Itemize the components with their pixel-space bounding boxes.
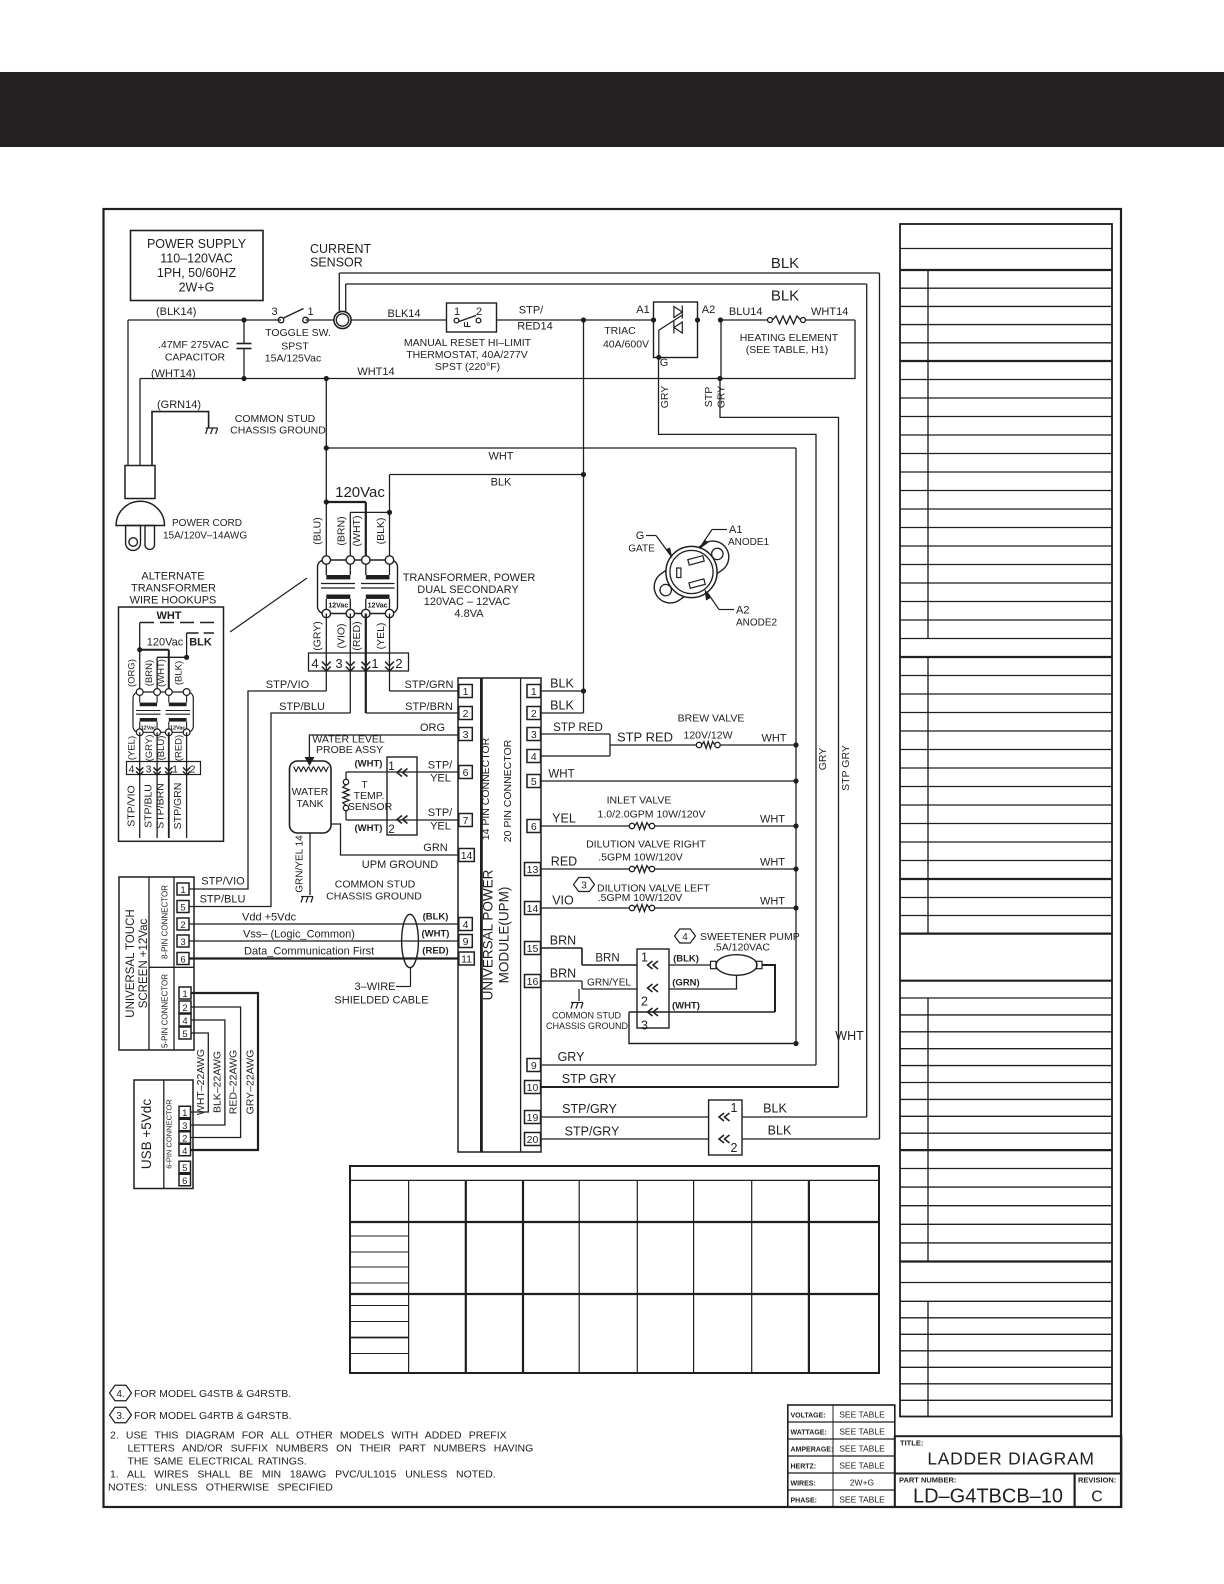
svg-text:CURRENT: CURRENT [310,242,371,256]
svg-text:STP/VIO: STP/VIO [266,679,310,691]
svg-text:2W+G: 2W+G [850,1478,874,1488]
svg-text:4: 4 [182,1016,187,1027]
svg-text:(SEE TABLE, H1): (SEE TABLE, H1) [746,344,828,356]
svg-text:(WHT): (WHT) [355,823,383,834]
svg-text:CHASSIS GROUND: CHASSIS GROUND [326,891,422,903]
svg-text:C: C [1091,1489,1103,1506]
svg-text:19: 19 [527,1112,539,1124]
triac Q1 [603,302,700,369]
wire pump BLK [669,954,711,966]
svg-text:TRANSFORMER: TRANSFORMER [131,583,216,595]
svg-text:2: 2 [531,708,537,720]
bottom data table [350,1166,879,1373]
svg-text:5: 5 [180,902,185,913]
svg-text:WHT: WHT [156,610,181,622]
note 2 [110,1430,533,1468]
wire STP/VIO [189,679,327,889]
svg-text:2: 2 [395,656,402,671]
wire toggle to current sensor [306,319,334,321]
universal touch screen block [119,877,194,1050]
wire GRY gate bus [659,357,817,1065]
svg-text:WHT: WHT [548,769,574,781]
svg-text:3: 3 [641,1019,648,1033]
20-pin connector pins [525,685,541,1146]
svg-text:GRY: GRY [558,1050,586,1064]
svg-text:4.8VA: 4.8VA [454,608,484,620]
3-wire shielded cable label [334,968,428,1007]
svg-text:PROBE ASSY: PROBE ASSY [316,744,383,756]
anode2 pointer [705,589,778,629]
svg-text:(WHT): (WHT) [672,1001,700,1012]
svg-text:FOR MODEL G4STB & G4RSTB.: FOR MODEL G4STB & G4RSTB. [134,1388,291,1400]
note 4 [110,1385,292,1401]
svg-text:WHT: WHT [760,814,785,826]
svg-text:BLK14: BLK14 [387,308,420,320]
svg-text:BLU14: BLU14 [729,306,763,318]
svg-text:4: 4 [182,1146,187,1157]
svg-text:STP RED: STP RED [617,730,673,745]
wire transformer BRN [350,510,392,560]
svg-text:1: 1 [182,1108,187,1119]
svg-text:WHT: WHT [488,451,513,463]
right reference table [900,224,1112,1417]
svg-text:TRIAC: TRIAC [604,325,636,337]
wire STP GRY pin10 [541,1072,839,1087]
wire BRN pin15 [541,934,638,966]
svg-text:STP/BRN: STP/BRN [405,701,453,713]
svg-text:110–120VAC: 110–120VAC [160,252,233,266]
capacitor C1 [158,317,252,378]
svg-text:15: 15 [527,943,539,955]
svg-text:1: 1 [307,306,313,318]
output connector J4 [709,1100,742,1155]
svg-text:1: 1 [172,764,178,776]
current sensor label [310,242,371,270]
wire BLK to bus (pin19) [742,1102,867,1118]
svg-text:WATER: WATER [292,786,329,798]
svg-text:COMMON STUD: COMMON STUD [335,879,416,891]
svg-text:STP/BRN: STP/BRN [155,783,167,829]
svg-text:STP RED: STP RED [553,722,603,734]
note 3 [110,1407,292,1423]
svg-text:POWER CORD: POWER CORD [172,518,242,529]
wire STP/GRY pin19 [541,1102,709,1117]
svg-text:(WHT): (WHT) [422,929,450,940]
wire GRY-22AWG [191,993,259,1150]
svg-text:A2: A2 [736,605,749,617]
svg-text:TITLE:: TITLE: [900,1439,923,1448]
wire BLK pin2 [541,699,584,714]
svg-text:ANODE1: ANODE1 [728,537,770,548]
sweetener pump label [675,929,800,954]
svg-text:.5GPM 10W/120V: .5GPM 10W/120V [598,852,683,864]
svg-text:BLK: BLK [771,288,799,305]
wire Vss logic common [189,929,459,942]
svg-text:14: 14 [527,903,539,915]
wire BLK pin1 [541,677,587,694]
title block [895,1436,1122,1473]
svg-text:STP GRY: STP GRY [840,745,852,791]
universal power module (UPM) body [458,678,541,1152]
svg-text:GATE: GATE [628,544,655,555]
wire BRN/GRN-YEL pin16 [541,967,638,990]
svg-text:4: 4 [531,751,537,763]
wire data communication [189,946,459,959]
svg-text:(BLK): (BLK) [673,954,699,965]
wire RED-22AWG [191,1007,241,1138]
svg-text:WHT: WHT [760,857,785,869]
svg-text:STP/BLU: STP/BLU [279,701,325,713]
transformer pin-number box [309,614,409,714]
svg-text:VIO: VIO [552,894,574,908]
svg-text:1.0/2.0GPM 10W/120V: 1.0/2.0GPM 10W/120V [598,809,706,821]
svg-text:STP/: STP/ [428,807,453,819]
svg-text:BLK: BLK [550,699,574,713]
notes header [108,1482,333,1494]
svg-text:POWER SUPPLY: POWER SUPPLY [147,237,247,251]
svg-text:1PH, 50/60HZ: 1PH, 50/60HZ [157,266,237,280]
svg-text:2: 2 [182,1003,187,1014]
wire STP RED pins3-4 [541,722,697,756]
wire WHT14 run [140,366,855,381]
wire STP/YEL pin6 [346,759,459,785]
sweetener pump M1 [711,955,763,976]
svg-text:1: 1 [463,686,469,698]
wire pump GRN [669,975,737,989]
svg-text:BRN: BRN [550,934,576,948]
temp sensor RT1 [343,772,393,820]
svg-text:DUAL SECONDARY: DUAL SECONDARY [417,584,519,596]
svg-text:1: 1 [454,306,460,318]
wire STP/BLU [189,701,351,907]
svg-text:1. ALL WIRES SHALL BE MIN: 1. ALL WIRES SHALL BE MIN 18AWG PVC/UL10… [110,1469,496,1481]
svg-text:2: 2 [731,1141,738,1155]
svg-text:3: 3 [271,306,277,318]
svg-text:120VAC – 12VAC: 120VAC – 12VAC [424,596,510,608]
svg-text:LETTERS AND/OR SUFFIX NUMBE: LETTERS AND/OR SUFFIX NUMBERS ON THEIR P… [128,1443,534,1455]
svg-text:3: 3 [146,764,152,776]
svg-text:5: 5 [182,1163,187,1174]
svg-text:SCREEN +12Vac: SCREEN +12Vac [138,918,150,1008]
svg-text:A2: A2 [702,304,715,316]
svg-text:A1: A1 [636,304,649,316]
svg-text:SEE TABLE: SEE TABLE [839,1495,885,1505]
svg-text:WIRES:: WIRES: [791,1480,816,1487]
svg-text:PART NUMBER:: PART NUMBER: [899,1476,956,1485]
svg-text:3: 3 [463,729,469,741]
svg-text:6: 6 [180,954,185,965]
svg-text:7: 7 [463,815,469,827]
svg-text:PHASE:: PHASE: [791,1497,817,1504]
wire STP/RED14 thermostat to triac A1 [497,305,654,333]
transformer secondary labels [312,621,388,651]
svg-text:2. USE THIS DIAGRAM FOR A: 2. USE THIS DIAGRAM FOR ALL OTHER MODELS… [110,1430,507,1442]
svg-text:13: 13 [527,864,539,876]
svg-text:(BLU): (BLU) [312,517,324,544]
svg-text:(WHT): (WHT) [156,659,167,687]
svg-text:(GRN14): (GRN14) [157,399,201,411]
svg-text:STP/: STP/ [428,760,453,772]
svg-text:RED: RED [551,855,577,869]
wire Vdd +5Vdc [189,912,459,925]
wire STP/BRN [366,701,459,713]
toggle switch SW1 [265,306,331,365]
svg-text:GRY: GRY [659,386,671,409]
svg-text:(RED): (RED) [174,735,185,761]
svg-text:3: 3 [531,729,537,741]
svg-text:3: 3 [182,1121,187,1132]
ratings table [788,1405,895,1507]
node A1 [636,304,649,316]
svg-text:120Vac: 120Vac [335,484,385,501]
svg-text:1: 1 [182,989,187,1000]
svg-text:WHT: WHT [760,896,785,908]
svg-text:2W+G: 2W+G [179,281,215,295]
svg-text:(BLK): (BLK) [174,661,185,685]
transformer T1 [318,556,398,618]
gate pointer [628,530,672,559]
svg-text:4: 4 [311,656,318,671]
svg-text:DILUTION VALVE RIGHT: DILUTION VALVE RIGHT [586,839,706,851]
svg-text:(BLK): (BLK) [423,912,449,923]
svg-text:15A/125Vac: 15A/125Vac [265,353,321,365]
svg-text:120Vac: 120Vac [147,637,184,649]
svg-text:HERTZ:: HERTZ: [791,1463,817,1470]
water level probe [305,734,385,767]
page header bar [0,72,1224,147]
wire WHT pin5 [541,769,799,784]
svg-text:12Vac: 12Vac [141,726,157,732]
power supply label box [131,231,264,301]
svg-text:USB +5Vdc: USB +5Vdc [139,1099,154,1169]
alternate transformer hookup box [119,607,224,841]
svg-text:SENSOR: SENSOR [348,801,393,813]
svg-text:4.: 4. [116,1389,124,1400]
svg-text:20: 20 [527,1134,539,1146]
wire GRN to pin14 [331,824,459,871]
svg-text:.47MF 275VAC: .47MF 275VAC [158,339,229,351]
svg-text:2: 2 [476,306,482,318]
svg-text:Vdd +5Vdc: Vdd +5Vdc [242,912,297,924]
chassis ground sweetener [546,989,629,1031]
svg-text:UNIVERSAL TOUCH: UNIVERSAL TOUCH [125,909,137,1017]
wire WHT-22AWG [191,1033,209,1115]
svg-text:.5A/120VAC: .5A/120VAC [713,942,770,954]
svg-text:TANK: TANK [296,798,323,810]
wire BLK-22AWG [191,1020,225,1125]
svg-text:(GRN): (GRN) [672,978,699,989]
node A2 [702,304,723,323]
svg-text:GRY–22AWG: GRY–22AWG [245,1050,257,1115]
wire transformer BLU [324,379,329,561]
wire pump WHT return [629,965,864,1046]
manual reset hi-limit thermostat TH1 [404,303,532,373]
sweetener connector J3 [637,949,669,1033]
svg-text:STP/GRN: STP/GRN [405,679,454,691]
svg-text:SEE TABLE: SEE TABLE [839,1461,885,1471]
temp sensor connector J2 [387,757,417,836]
wire STP GRY bus [703,376,839,1087]
shielded cable ellipse [402,912,450,968]
5-pin connector pins [179,987,191,1040]
6-pin connector pins [179,1106,191,1187]
svg-text:(YEL): (YEL) [375,623,387,650]
svg-text:MODULE(UPM): MODULE(UPM) [497,887,512,984]
svg-text:HEATING ELEMENT: HEATING ELEMENT [740,332,839,344]
wire bus A1/BLK vertical [583,320,585,713]
svg-text:THERMOSTAT, 40A/277V: THERMOSTAT, 40A/277V [406,349,528,361]
svg-text:6-PIN CONNECTOR: 6-PIN CONNECTOR [165,1099,174,1169]
svg-text:.5GPM 10W/120V: .5GPM 10W/120V [598,892,683,904]
svg-text:BLK: BLK [550,677,574,691]
svg-text:STP/: STP/ [519,305,544,317]
revision block [1075,1474,1122,1508]
svg-text:4: 4 [129,764,135,776]
svg-text:CAPACITOR: CAPACITOR [165,352,226,364]
svg-text:VOLTAGE:: VOLTAGE: [791,1412,826,1419]
svg-text:BREW VALVE: BREW VALVE [678,713,745,725]
svg-text:REVISION:: REVISION: [1078,1476,1116,1485]
wire GRY pin9 [541,1050,817,1065]
wire BLK14 from power cord [128,306,281,320]
svg-text:WHT–22AWG: WHT–22AWG [195,1049,207,1115]
wire STP/YEL pin7 [346,807,459,834]
svg-text:SPST (220°F): SPST (220°F) [435,361,500,373]
alternate hookup pointer line [230,578,307,632]
svg-text:1: 1 [371,656,378,671]
svg-text:SPST: SPST [281,341,309,353]
svg-text:6: 6 [182,1176,187,1187]
svg-text:ORG: ORG [420,722,445,734]
svg-text:9: 9 [463,936,469,948]
svg-text:(RED): (RED) [422,946,448,957]
svg-text:3: 3 [180,937,185,948]
svg-text:(YEL): (YEL) [127,736,138,760]
svg-text:INLET VALVE: INLET VALVE [607,795,672,807]
wire BLK feeder [390,472,587,489]
svg-text:STP/VIO: STP/VIO [126,785,138,826]
svg-text:1: 1 [731,1101,738,1115]
svg-text:16: 16 [527,976,539,988]
svg-text:12Vac: 12Vac [170,726,186,732]
svg-text:STP GRY: STP GRY [562,1072,617,1086]
bus labels GRY / STP GRY [817,745,852,791]
inlet valve [541,795,799,830]
svg-text:G: G [660,357,669,369]
USB block [134,1080,193,1189]
transformer primary labels [312,516,388,547]
svg-text:ANODE2: ANODE2 [736,618,778,629]
svg-text:SHIELDED CABLE: SHIELDED CABLE [334,995,428,1007]
svg-text:BLK: BLK [771,255,799,272]
svg-text:GRN/YEL: GRN/YEL [587,978,631,989]
svg-text:CHASSIS GROUND: CHASSIS GROUND [546,1021,629,1031]
14-pin connector pins [459,685,475,966]
anode1 pointer [699,524,770,550]
svg-text:WHT: WHT [761,733,786,745]
svg-text:SEE TABLE: SEE TABLE [839,1444,885,1454]
svg-text:2: 2 [182,1133,187,1144]
svg-text:2: 2 [641,995,648,1009]
svg-text:THE SAME ELECTRICAL RATINGS: THE SAME ELECTRICAL RATINGS. [128,1456,307,1468]
svg-text:(BRN): (BRN) [336,516,348,545]
svg-text:6: 6 [463,767,469,779]
alternate hookup title [130,571,217,607]
svg-text:BLK: BLK [768,1124,792,1138]
heating element H1 [721,306,855,379]
svg-text:UPM GROUND: UPM GROUND [362,859,438,871]
svg-text:5-PIN CONNECTOR: 5-PIN CONNECTOR [161,974,170,1048]
svg-text:GRY: GRY [716,386,728,409]
svg-text:WATTAGE:: WATTAGE: [791,1429,827,1436]
svg-text:COMMON STUD: COMMON STUD [552,1011,621,1021]
label 120Vac [335,484,385,501]
svg-text:NOTES: UNLESS OTHERWISE SPE: NOTES: UNLESS OTHERWISE SPECIFIED [108,1482,333,1494]
svg-text:RED14: RED14 [517,321,552,333]
svg-text:A1: A1 [729,524,742,536]
svg-text:9: 9 [531,1060,537,1072]
svg-text:12Vac: 12Vac [328,603,348,610]
svg-text:UNIVERSAL POWER: UNIVERSAL POWER [481,869,496,1000]
svg-text:10: 10 [527,1082,539,1094]
dilution valve right [541,839,799,873]
svg-text:BRN: BRN [595,953,619,965]
svg-text:YEL: YEL [430,821,451,833]
svg-text:TRANSFORMER, POWER: TRANSFORMER, POWER [403,572,536,584]
svg-text:TOGGLE SW.: TOGGLE SW. [265,327,331,339]
drawing border frame [104,209,1122,1507]
svg-text:1: 1 [180,885,185,896]
svg-text:6: 6 [531,821,537,833]
svg-text:8-PIN CONNECTOR: 8-PIN CONNECTOR [161,885,170,959]
dilution valve left [541,878,799,912]
svg-text:BLK: BLK [491,477,512,489]
svg-text:2: 2 [190,764,196,776]
svg-text:(RED): (RED) [351,621,363,650]
current sensor CT [334,311,351,328]
svg-text:AMPERAGE:: AMPERAGE: [791,1446,834,1453]
svg-text:SEE TABLE: SEE TABLE [839,1410,885,1420]
svg-text:40A/600V: 40A/600V [603,339,649,351]
svg-text:GRY: GRY [817,748,829,771]
brew valve [678,713,799,749]
wire BLK upper run [339,255,879,1139]
svg-text:15A/120V–14AWG: 15A/120V–14AWG [163,531,247,542]
svg-text:RED–22AWG: RED–22AWG [228,1050,240,1114]
note 1 [110,1469,496,1481]
svg-text:3: 3 [581,881,587,892]
wire GRN/YEL 14 to chassis ground [295,833,423,903]
svg-text:Vss– (Logic_Common): Vss– (Logic_Common) [243,929,355,941]
svg-text:12Vac: 12Vac [368,603,388,610]
svg-text:STP/BLU: STP/BLU [143,784,155,828]
svg-text:(GRY): (GRY) [312,621,324,651]
power cord plug [116,320,247,550]
wire transformer BLK [389,475,391,561]
svg-text:11: 11 [461,953,472,965]
svg-text:STP/GRY: STP/GRY [562,1102,617,1116]
svg-text:1: 1 [641,951,648,965]
part number block [895,1474,1075,1508]
wire transformer WHT tap [326,502,366,560]
svg-text:(ORG): (ORG) [127,659,138,687]
svg-text:GRN: GRN [423,842,448,854]
wire STP/GRY pin20 [541,1125,709,1140]
svg-text:2: 2 [180,920,185,931]
svg-text:BLK–22AWG: BLK–22AWG [212,1051,224,1113]
svg-text:SENSOR: SENSOR [310,256,363,270]
svg-text:LD–G4TBCB–10: LD–G4TBCB–10 [913,1486,1063,1508]
